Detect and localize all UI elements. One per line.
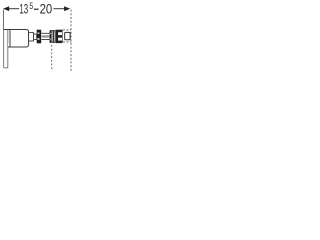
wall plate (vertical bar) (4, 30, 8, 68)
lower reference dashed line (knob face) (51, 45, 53, 71)
phantom extended position (dashed outline) (63, 29, 71, 31)
right arrowhead (64, 6, 70, 11)
valve body box (8, 30, 29, 48)
dash between values (34, 9, 39, 10)
left arrowhead (3, 6, 9, 11)
top edge line (plate + body top) (3, 29, 26, 31)
body left edge (9, 30, 11, 48)
right extension line (dashed, runs down whole figure) (70, 10, 72, 71)
dimension line right segment (53, 8, 64, 10)
technical dimension drawing: concealed valve with extension rod, dim 13.5-20 (0, 0, 74, 74)
knurled flange 1 (37, 30, 42, 44)
phantom knob end (solid small rect) (65, 32, 70, 39)
actuator knob (slotted end, E profile) (56, 30, 59, 43)
dimension line left segment (9, 8, 19, 10)
knob end face edge (61, 30, 63, 43)
knurled nut 2 (50, 30, 56, 43)
left extension line (2, 10, 4, 30)
stub shaft (34, 34, 37, 40)
neck collar (29, 33, 34, 41)
threaded shaft (41, 33, 49, 40)
svg-text:5: 5 (29, 1, 33, 11)
svg-text:20: 20 (40, 2, 53, 17)
svg-text:13: 13 (19, 2, 28, 17)
